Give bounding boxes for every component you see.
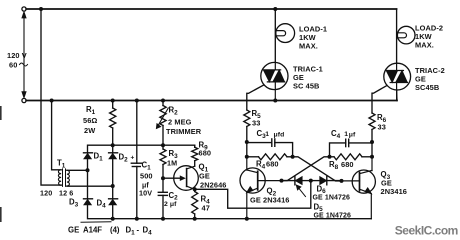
lamp LOAD-1 bbox=[276, 24, 295, 43]
node ground rail C2 bbox=[161, 217, 165, 221]
wire load2 column bbox=[396, 9, 398, 63]
terminal bottom-left bbox=[22, 98, 26, 102]
svg-text:GE: GE bbox=[199, 172, 210, 181]
diode D3 bbox=[87, 170, 89, 199]
terminal top-left bbox=[22, 7, 26, 11]
transformer T1 secondary winding bbox=[67, 170, 70, 186]
diode D1 bbox=[84, 154, 91, 159]
svg-text:680: 680 bbox=[341, 160, 354, 169]
node ground rail Q2 emitter bbox=[245, 217, 249, 221]
svg-text:SC 45B: SC 45B bbox=[293, 82, 319, 91]
svg-text:MAX.: MAX. bbox=[415, 41, 434, 50]
resistor R1 bbox=[111, 99, 115, 103]
leader arrow to D5 bbox=[297, 186, 305, 196]
svg-text:120: 120 bbox=[40, 188, 52, 197]
wire bottom rail bbox=[26, 100, 397, 102]
resistor R8 bbox=[330, 156, 335, 158]
triac TRIAC-2 bbox=[384, 63, 411, 90]
wire load1 column bbox=[274, 9, 276, 63]
transistor Q3 bbox=[352, 170, 375, 193]
node ground rail D4 bbox=[111, 217, 115, 221]
svg-text:GE 1N4726: GE 1N4726 bbox=[314, 212, 351, 219]
resistor R5 bbox=[244, 110, 250, 127]
svg-text:SC45B: SC45B bbox=[415, 83, 439, 92]
wire hot line down to transformer primary bbox=[41, 9, 61, 185]
wire secondary bottom bbox=[67, 185, 113, 187]
svg-text:56Ω: 56Ω bbox=[83, 116, 97, 125]
unijunction transistor Q1 bbox=[174, 166, 199, 191]
resistor R4 680 bbox=[247, 156, 259, 158]
node Q1 B1 R4 bbox=[193, 187, 197, 191]
node top rail to primary bbox=[39, 7, 43, 11]
svg-text:500: 500 bbox=[140, 172, 153, 181]
svg-text:GE: GE bbox=[68, 226, 79, 235]
wire triac2 gate bbox=[372, 86, 386, 113]
svg-text:1M: 1M bbox=[167, 159, 177, 168]
svg-text:GE 2N3416: GE 2N3416 bbox=[250, 196, 290, 205]
wire neutral to primary top bbox=[52, 101, 62, 170]
svg-text:2 MEG: 2 MEG bbox=[168, 118, 192, 127]
transformer T1 primary winding bbox=[58, 170, 61, 185]
svg-text:1: 1 bbox=[344, 131, 348, 138]
svg-text:680: 680 bbox=[266, 160, 279, 169]
resistor R2 trimmer bbox=[161, 99, 165, 103]
svg-text:12 6: 12 6 bbox=[59, 188, 73, 197]
svg-text:2 μf: 2 μf bbox=[164, 201, 177, 208]
node ground rail C1 bbox=[135, 217, 139, 221]
capacitor C1 bbox=[135, 99, 139, 103]
node Q2 base bbox=[280, 179, 284, 183]
wire bottom rail up to triac2 bbox=[396, 90, 398, 101]
transformer T1 core bbox=[62, 169, 64, 187]
svg-text:120 V: 120 V bbox=[7, 51, 27, 60]
wire cross coupling A to Q3 base bbox=[293, 157, 342, 181]
node bottom rail triac1 bbox=[273, 99, 277, 103]
diode D6 bbox=[311, 180, 320, 182]
svg-text:47: 47 bbox=[202, 204, 210, 213]
svg-text:2W: 2W bbox=[84, 126, 95, 135]
svg-text:-: - bbox=[137, 226, 140, 235]
triac TRIAC-1 bbox=[261, 62, 288, 89]
node D5 D6 junction bbox=[309, 179, 313, 183]
node Q3 collector R8 bbox=[370, 155, 374, 159]
node top rail load1 bbox=[273, 7, 277, 11]
node ground rail R4 bbox=[193, 217, 197, 221]
svg-text:A14F: A14F bbox=[83, 226, 102, 235]
svg-text:+: + bbox=[131, 155, 135, 162]
wire cross coupling B to Q2 base bbox=[282, 157, 330, 181]
node bus R1 D2 bbox=[111, 143, 115, 147]
node Q2 collector C3 bbox=[245, 140, 249, 144]
node secondary bottom / D2 D4 bbox=[111, 184, 115, 188]
resistor R9 bbox=[194, 145, 196, 147]
svg-text:μfd: μfd bbox=[274, 132, 285, 139]
svg-text:2N2646: 2N2646 bbox=[200, 181, 227, 190]
node R6 C4 bbox=[370, 140, 374, 144]
wire R6 to R8 node bbox=[371, 142, 373, 157]
node bus R2 R3 bbox=[161, 143, 165, 147]
wire secondary top bbox=[67, 169, 88, 171]
120V source dimension arrow bbox=[23, 14, 25, 96]
node secondary top / D1 D3 bbox=[86, 168, 90, 172]
diode D2 bbox=[112, 145, 114, 153]
node Q3 base bbox=[340, 179, 344, 183]
capacitor C3 bbox=[247, 142, 272, 144]
svg-text:10V: 10V bbox=[139, 189, 152, 198]
wire trigger pulse line bbox=[195, 181, 311, 209]
svg-text:TRIMMER: TRIMMER bbox=[166, 127, 202, 136]
node bottom rail to primary bbox=[50, 99, 54, 103]
wire Q2 collector bbox=[246, 142, 248, 157]
node coupling A bbox=[291, 155, 295, 159]
node coupling B bbox=[328, 155, 332, 159]
transistor Q2 bbox=[240, 168, 265, 193]
capacitor C2 bbox=[162, 178, 164, 192]
svg-text:2N3416: 2N3416 bbox=[381, 187, 408, 196]
node R3 C2 emitter bbox=[161, 176, 165, 180]
node Q2 collector R4-680 bbox=[245, 155, 249, 159]
diode D5 bbox=[282, 180, 296, 182]
resistor R3 bbox=[162, 145, 164, 149]
svg-text:680: 680 bbox=[199, 149, 212, 158]
svg-text:60: 60 bbox=[9, 61, 17, 70]
lamp LOAD-2 bbox=[397, 26, 415, 44]
svg-text:33: 33 bbox=[378, 123, 386, 132]
wire top rail bbox=[26, 8, 397, 10]
svg-text:(4): (4) bbox=[110, 226, 120, 235]
diode D4 bbox=[112, 186, 114, 199]
svg-text:μf: μf bbox=[349, 132, 356, 139]
capacitor C4 bbox=[330, 143, 346, 157]
wire DC plus bus bbox=[88, 145, 195, 152]
svg-text:33: 33 bbox=[252, 119, 260, 128]
svg-text:GE 1N4726: GE 1N4726 bbox=[313, 195, 350, 202]
svg-text:MAX.: MAX. bbox=[299, 42, 318, 51]
scan artifact left edge bbox=[0, 106, 2, 120]
svg-text:SeekIC.com: SeekIC.com bbox=[395, 224, 458, 238]
resistor R6 bbox=[369, 113, 375, 130]
svg-text:1: 1 bbox=[265, 131, 269, 138]
resistor R4 47 bbox=[194, 189, 196, 191]
wire triac1 gate bbox=[247, 85, 263, 110]
